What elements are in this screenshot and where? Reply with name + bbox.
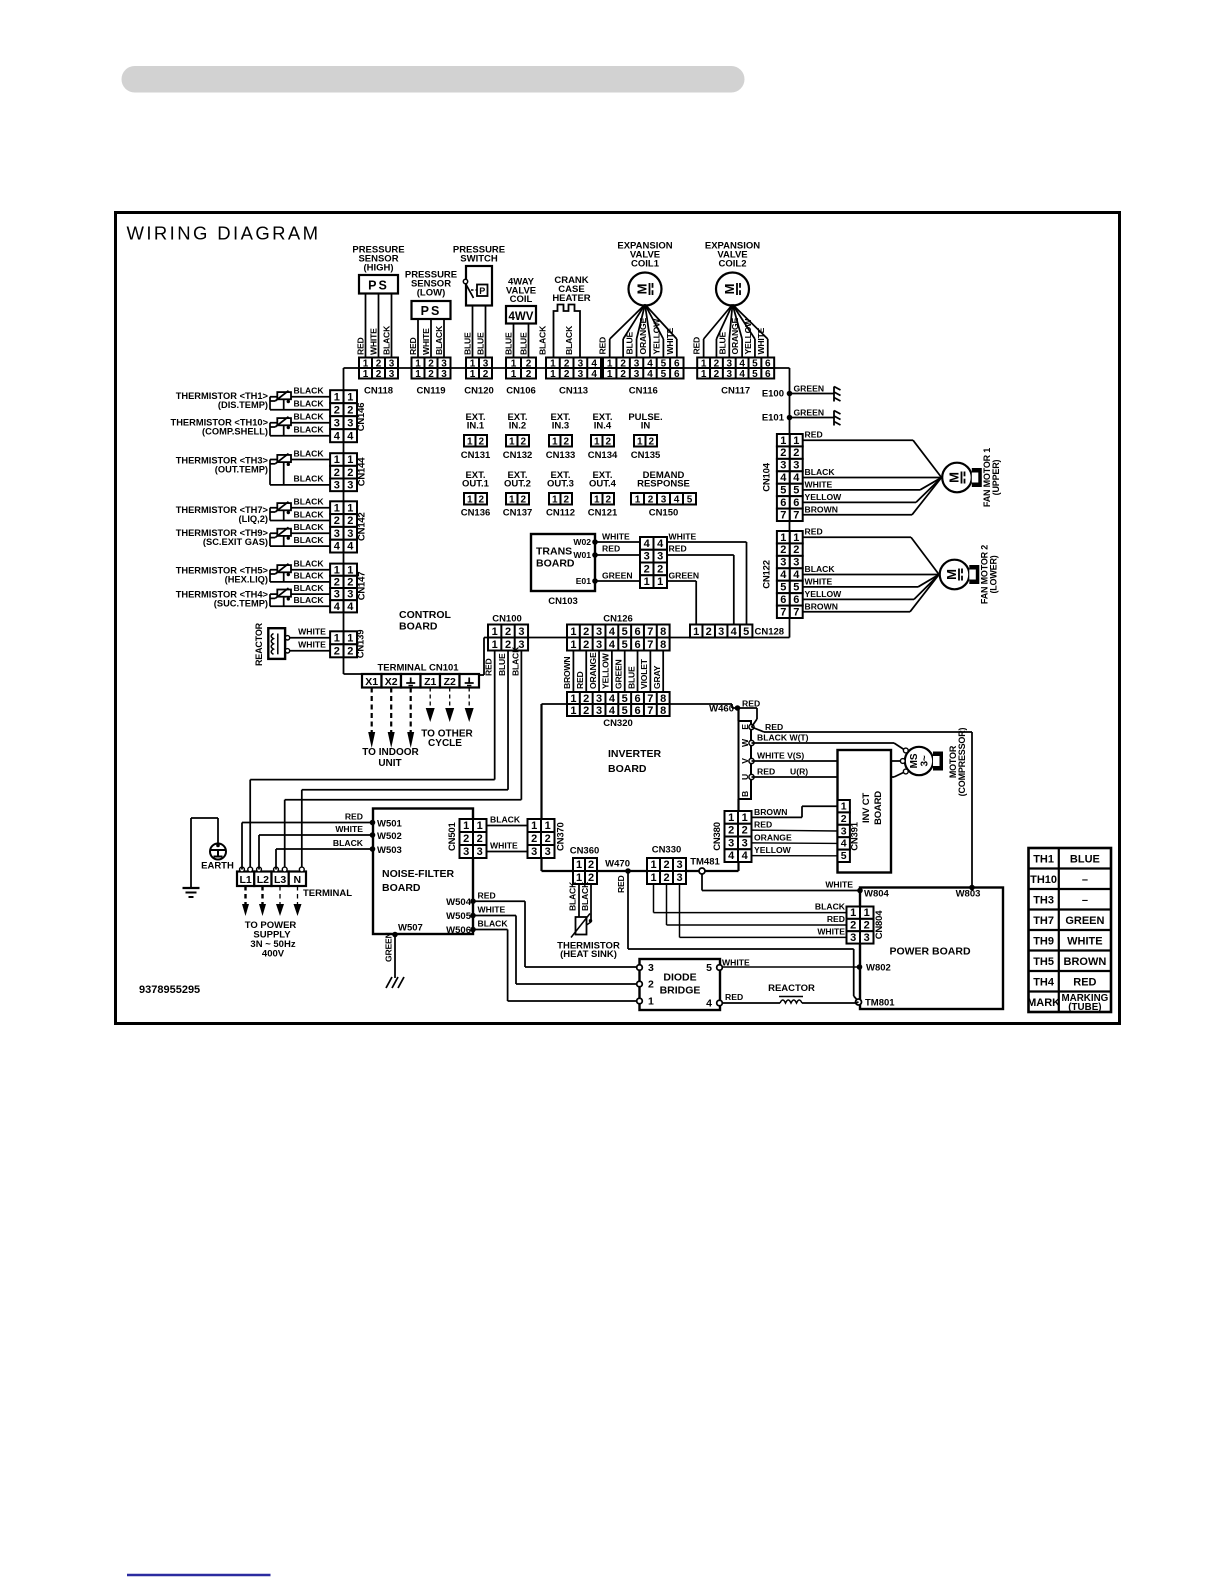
svg-text:2: 2 [850,919,856,931]
svg-text:RED: RED [765,722,783,732]
svg-text:CN126: CN126 [603,614,633,625]
svg-text:1: 1 [693,626,699,638]
svg-text:1: 1 [552,494,558,505]
svg-text:RED: RED [754,820,772,830]
svg-text:2: 2 [583,626,589,638]
svg-text:1: 1 [650,859,656,871]
svg-text:WHITE: WHITE [817,927,845,937]
svg-text:CN139: CN139 [356,630,367,659]
svg-text:W506: W506 [446,925,471,936]
svg-text:E100: E100 [762,389,784,400]
svg-text:CN120: CN120 [464,386,494,397]
svg-text:4: 4 [347,601,354,613]
svg-text:400V: 400V [262,949,285,960]
svg-text:PS: PS [368,279,389,293]
svg-text:YELLOW: YELLOW [805,589,843,599]
svg-text:ORANGE: ORANGE [638,318,648,355]
svg-text:2: 2 [605,494,611,505]
svg-text:(COMP.SHELL): (COMP.SHELL) [202,427,268,437]
svg-text:RED: RED [742,699,760,709]
svg-text:2: 2 [347,515,353,527]
svg-text:TH5: TH5 [1033,956,1054,968]
svg-text:1: 1 [594,436,600,447]
svg-text:CN132: CN132 [503,450,533,461]
svg-text:CN391: CN391 [850,821,861,850]
svg-text:WIRING DIAGRAM: WIRING DIAGRAM [127,223,321,244]
svg-text:RED: RED [575,671,585,689]
svg-text:BLACK: BLACK [294,595,325,605]
svg-text:2: 2 [334,515,340,527]
svg-text:1: 1 [635,494,641,505]
svg-text:BLACK W(T): BLACK W(T) [757,733,809,743]
svg-text:3: 3 [644,551,650,563]
svg-text:7: 7 [793,509,799,521]
svg-text:6: 6 [634,626,640,638]
svg-text:BLACK: BLACK [568,881,578,911]
svg-text:4: 4 [780,472,787,484]
svg-text:2: 2 [334,577,340,589]
svg-text:1: 1 [637,436,643,447]
svg-text:E01: E01 [576,576,592,586]
svg-text:TH3: TH3 [1033,894,1054,906]
svg-text:5: 5 [780,582,786,594]
svg-text:W502: W502 [377,831,402,842]
svg-text:2: 2 [347,577,353,589]
svg-text:BLACK: BLACK [538,325,548,355]
svg-text:–: – [1082,894,1088,906]
svg-text:IN.1: IN.1 [467,420,485,431]
svg-text:NOISE-FILTER: NOISE-FILTER [382,868,455,880]
svg-text:TERMINAL: TERMINAL [303,888,352,899]
svg-text:1: 1 [793,435,799,447]
svg-text:W803: W803 [956,889,981,900]
svg-text:3: 3 [531,846,537,858]
svg-text:CN119: CN119 [416,386,445,397]
svg-text:1: 1 [347,502,353,514]
svg-text:BLACK: BLACK [294,399,325,409]
svg-text:GREEN: GREEN [669,571,700,581]
svg-text:(TUBE): (TUBE) [1068,1002,1101,1013]
svg-text:3: 3 [463,846,469,858]
svg-text:1: 1 [492,639,498,651]
svg-text:CN128: CN128 [755,627,785,638]
svg-text:5: 5 [622,626,628,638]
svg-text:IN.4: IN.4 [594,420,612,431]
svg-text:3: 3 [657,551,663,563]
svg-text:3: 3 [841,825,847,837]
svg-text:CN142: CN142 [357,512,368,541]
svg-text:7: 7 [780,509,786,521]
svg-text:2: 2 [605,436,611,447]
svg-text:GREEN: GREEN [602,571,633,581]
svg-text:BROWN: BROWN [1064,956,1107,968]
svg-text:9378955295: 9378955295 [139,984,200,996]
svg-text:N: N [294,874,302,886]
svg-text:2: 2 [347,404,353,416]
svg-text:CN100: CN100 [492,614,522,625]
svg-text:BLACK: BLACK [805,467,836,477]
svg-text:1: 1 [576,859,582,871]
svg-text:1: 1 [347,564,353,576]
svg-text:RED: RED [602,544,620,554]
svg-text:(HEAT SINK): (HEAT SINK) [560,949,617,960]
svg-text:WHITE: WHITE [490,841,518,851]
svg-text:WHITE: WHITE [722,958,750,968]
svg-text:2: 2 [483,369,489,380]
svg-text:8: 8 [660,626,666,638]
svg-text:M: M [722,284,737,295]
svg-text:OUT.4: OUT.4 [589,478,617,489]
svg-text:BLACK: BLACK [294,509,325,519]
svg-text:5: 5 [661,369,667,380]
svg-text:W470: W470 [605,859,630,870]
svg-text:1: 1 [728,812,734,824]
svg-text:W503: W503 [377,845,402,856]
svg-text:CN133: CN133 [546,450,576,461]
svg-text:3: 3 [334,479,340,491]
svg-text:BLUE: BLUE [625,331,635,354]
svg-text:EARTH: EARTH [201,861,234,872]
svg-text:WHITE: WHITE [805,576,833,586]
svg-text:BLACK: BLACK [805,564,836,574]
svg-text:P: P [479,286,485,296]
svg-text:1: 1 [334,632,340,644]
svg-text:4: 4 [706,998,712,1010]
svg-text:CN104: CN104 [762,462,773,491]
svg-text:BLACK: BLACK [294,535,325,545]
svg-text:M: M [947,472,962,483]
svg-text:WHITE: WHITE [1067,935,1102,947]
svg-text:3: 3 [545,846,551,858]
svg-text:3: 3 [780,557,786,569]
svg-text:4: 4 [334,541,341,553]
svg-text:4: 4 [674,494,680,505]
svg-text:5: 5 [841,850,847,862]
svg-text:INV CT: INV CT [861,793,872,823]
svg-text:2: 2 [347,645,353,657]
svg-text:CN117: CN117 [721,386,750,397]
svg-text:(OUT.TEMP): (OUT.TEMP) [215,465,268,475]
svg-text:RED: RED [356,337,366,355]
svg-text:2: 2 [620,369,626,380]
svg-text:3: 3 [334,589,340,601]
svg-text:COIL2: COIL2 [719,259,747,270]
svg-text:1: 1 [347,632,353,644]
svg-text:2: 2 [714,369,720,380]
svg-text:3: 3 [726,369,732,380]
svg-text:3: 3 [850,932,856,944]
svg-text:3: 3 [864,932,870,944]
svg-text:BLACK: BLACK [294,522,325,532]
svg-text:1: 1 [570,705,576,717]
svg-text:BLACK: BLACK [564,325,574,355]
svg-text:2: 2 [742,825,748,837]
svg-text:3: 3 [793,460,799,472]
svg-text:CN135: CN135 [631,450,661,461]
svg-text:IN.2: IN.2 [509,420,526,431]
svg-text:1: 1 [334,502,340,514]
svg-text:YELLOW: YELLOW [743,318,753,355]
svg-text:3: 3 [389,369,395,380]
svg-text:MS: MS [909,753,920,768]
svg-text:TERMINAL CN101: TERMINAL CN101 [377,663,459,674]
svg-text:3: 3 [676,859,682,871]
svg-text:2: 2 [841,813,847,825]
svg-text:1: 1 [347,391,353,403]
svg-text:1: 1 [864,907,870,919]
svg-text:ORANGE: ORANGE [588,652,598,689]
svg-text:BLACK: BLACK [382,325,392,355]
svg-text:TO INDOOR: TO INDOOR [362,747,419,758]
svg-text:3: 3 [661,494,667,505]
svg-text:1: 1 [334,454,340,466]
svg-text:WHITE: WHITE [756,327,766,354]
svg-text:DIODE: DIODE [663,972,696,984]
svg-text:CN380: CN380 [712,822,723,851]
svg-text:W505: W505 [446,911,472,922]
svg-text:BRIDGE: BRIDGE [660,985,701,997]
svg-text:BLACK: BLACK [580,881,590,911]
svg-text:1: 1 [780,435,786,447]
svg-text:TH10: TH10 [1030,874,1057,886]
svg-text:RED: RED [692,337,702,355]
svg-text:2: 2 [706,626,712,638]
svg-text:WHITE: WHITE [669,532,697,542]
svg-text:2: 2 [663,859,669,871]
svg-text:–: – [1082,874,1088,886]
svg-text:2: 2 [478,494,484,505]
svg-text:BLACK: BLACK [490,815,521,825]
svg-text:3: 3 [477,846,483,858]
svg-text:BLACK: BLACK [294,497,325,507]
svg-text:3: 3 [596,639,602,651]
svg-text:3: 3 [441,369,447,380]
svg-text:1: 1 [347,454,353,466]
svg-text:3: 3 [718,626,724,638]
svg-text:CN137: CN137 [503,508,533,519]
svg-text:2: 2 [583,639,589,651]
svg-text:TH1: TH1 [1033,853,1054,865]
svg-text:5: 5 [743,626,749,638]
svg-text:2: 2 [334,645,340,657]
svg-text:VIOLET: VIOLET [639,658,649,689]
svg-text:RED: RED [725,992,743,1002]
svg-text:2: 2 [477,833,483,845]
svg-text:BLACK: BLACK [815,902,846,912]
svg-text:5: 5 [687,494,693,505]
svg-text:2: 2 [588,859,594,871]
svg-text:3: 3 [728,837,734,849]
svg-text:MARK: MARK [1027,997,1060,1009]
svg-text:2: 2 [563,436,569,447]
svg-text:1: 1 [470,369,476,380]
svg-text:3: 3 [347,589,353,601]
svg-text:2: 2 [864,919,870,931]
svg-text:W507: W507 [398,923,423,934]
svg-text:4: 4 [739,369,745,380]
svg-text:COIL1: COIL1 [631,259,660,270]
svg-text:RESPONSE: RESPONSE [637,479,690,490]
svg-text:OUT.2: OUT.2 [504,478,531,489]
svg-text:1: 1 [850,907,856,919]
svg-text:WHITE: WHITE [478,905,506,915]
svg-text:HEATER: HEATER [552,293,590,304]
svg-text:BLACK: BLACK [294,571,325,581]
svg-text:BOARD: BOARD [608,763,647,775]
svg-text:CN106: CN106 [506,386,536,397]
svg-text:PS: PS [421,304,442,318]
svg-text:RED: RED [669,544,687,554]
svg-text:ORANGE: ORANGE [730,318,740,355]
svg-text:TRANS: TRANS [536,546,572,558]
svg-text:X2: X2 [385,676,398,688]
svg-text:1: 1 [570,639,576,651]
svg-text:WHITE: WHITE [335,824,363,834]
svg-text:BLACK: BLACK [333,838,364,848]
svg-text:4: 4 [647,369,653,380]
svg-text:CN116: CN116 [629,386,658,397]
svg-text:3: 3 [634,369,640,380]
svg-text:1: 1 [701,369,707,380]
svg-text:1: 1 [742,812,748,824]
svg-text:1: 1 [644,576,650,588]
svg-text:4WV: 4WV [509,311,534,323]
svg-text:CN136: CN136 [461,508,491,519]
svg-text:2: 2 [793,447,799,459]
svg-text:WHITE: WHITE [825,880,853,890]
svg-text:BLUE: BLUE [1070,853,1100,865]
svg-text:POWER BOARD: POWER BOARD [889,946,971,958]
svg-text:6: 6 [674,369,680,380]
svg-text:(SC.EXIT GAS): (SC.EXIT GAS) [203,537,268,547]
svg-text:3: 3 [780,460,786,472]
svg-text:3: 3 [518,626,524,638]
svg-text:2: 2 [644,563,650,575]
svg-text:2: 2 [728,825,734,837]
svg-text:1: 1 [545,820,551,832]
svg-text:2: 2 [793,544,799,556]
svg-text:TH9: TH9 [1033,935,1054,947]
svg-text:TH7: TH7 [1033,915,1054,927]
svg-text:2: 2 [428,369,434,380]
svg-text:6: 6 [780,594,786,606]
svg-text:5: 5 [622,639,628,651]
svg-text:4: 4 [334,430,341,442]
svg-text:CN501: CN501 [447,822,458,851]
svg-text:BOARD: BOARD [382,882,421,894]
svg-text:GREEN: GREEN [384,932,394,962]
svg-text:3: 3 [347,528,353,540]
svg-text:2: 2 [520,436,526,447]
svg-text:2: 2 [663,872,669,884]
svg-text:1: 1 [363,369,369,380]
svg-text:8: 8 [660,639,666,651]
svg-text:CN122: CN122 [762,560,773,589]
svg-text:5: 5 [780,485,786,497]
svg-text:GRAY: GRAY [652,665,662,689]
svg-text:YELLOW: YELLOW [601,652,611,689]
svg-text:TH4: TH4 [1033,976,1055,988]
svg-text:2: 2 [334,467,340,479]
svg-text:4: 4 [347,541,354,553]
svg-text:WHITE: WHITE [805,479,833,489]
svg-text:5: 5 [752,369,758,380]
svg-text:2: 2 [347,467,353,479]
svg-text:BLUE: BLUE [476,332,486,355]
svg-text:4: 4 [609,705,616,717]
svg-text:2: 2 [545,833,551,845]
svg-text:BLUE: BLUE [519,332,529,355]
svg-text:2: 2 [780,544,786,556]
svg-text:1: 1 [509,436,515,447]
svg-text:7: 7 [647,626,653,638]
svg-text:E101: E101 [762,413,785,424]
svg-text:REACTOR: REACTOR [254,622,264,666]
svg-text:1: 1 [477,820,483,832]
svg-text:REACTOR: REACTOR [768,983,815,994]
svg-text:(COMPRESSOR): (COMPRESSOR) [957,727,967,796]
svg-text:RED: RED [598,337,608,355]
svg-text:BLACK: BLACK [294,559,325,569]
svg-text:BROWN: BROWN [805,601,838,611]
svg-text:BLUE: BLUE [504,332,514,355]
svg-text:IN: IN [641,420,651,431]
svg-text:M: M [635,284,650,295]
svg-text:8: 8 [660,705,666,717]
svg-text:CN330: CN330 [652,845,682,856]
svg-text:CONTROL: CONTROL [399,609,451,621]
svg-text:COIL: COIL [510,294,533,305]
svg-text:L1: L1 [239,874,251,886]
svg-text:Z1: Z1 [424,676,436,688]
svg-text:CN360: CN360 [570,846,600,857]
svg-text:2: 2 [526,369,532,380]
svg-text:RED: RED [805,430,823,440]
svg-text:BLACK: BLACK [294,412,325,422]
svg-text:GREEN: GREEN [794,408,825,418]
svg-text:1: 1 [511,369,517,380]
svg-text:BOARD: BOARD [873,791,884,825]
svg-text:BOARD: BOARD [399,621,438,633]
svg-text:3: 3 [334,528,340,540]
svg-text:1: 1 [780,532,786,544]
svg-text:3: 3 [742,837,748,849]
svg-text:RED: RED [616,875,626,893]
svg-text:1: 1 [531,820,537,832]
svg-text:CN144: CN144 [357,457,368,486]
svg-text:4: 4 [742,850,749,862]
svg-text:RED: RED [827,914,845,924]
svg-text:2: 2 [531,833,537,845]
svg-text:4: 4 [793,569,800,581]
svg-text:TM481: TM481 [690,857,720,868]
svg-text:1: 1 [657,576,663,588]
svg-text:BLACK: BLACK [510,646,520,676]
svg-text:BLACK: BLACK [294,425,325,435]
svg-text:CN121: CN121 [588,508,618,519]
svg-text:1: 1 [334,391,340,403]
svg-text:2: 2 [520,494,526,505]
svg-text:2: 2 [376,369,382,380]
svg-text:W802: W802 [866,963,891,974]
svg-text:1: 1 [570,626,576,638]
svg-text:BLUE: BLUE [463,332,473,355]
svg-text:4: 4 [609,626,616,638]
svg-text:CN146: CN146 [356,403,367,432]
svg-text:1: 1 [648,996,654,1008]
svg-text:1: 1 [463,820,469,832]
svg-text:5: 5 [793,582,799,594]
